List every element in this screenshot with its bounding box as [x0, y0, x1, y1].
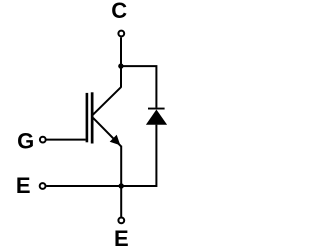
svg-text:G: G [17, 129, 34, 154]
svg-text:C: C [111, 0, 127, 23]
svg-text:E: E [114, 226, 129, 251]
svg-text:E: E [16, 173, 31, 198]
